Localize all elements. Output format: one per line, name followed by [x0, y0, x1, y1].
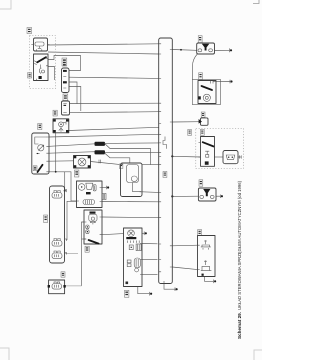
connector C2 body — [62, 101, 70, 115]
wire: stair branch into solenoid top-right and ECU (y=148-164) — [105, 143, 151, 164]
wire: gauge unit to ECU pin (y=45) — [48, 44, 159, 45]
warning lamp label — [75, 170, 79, 177]
connector C2 pin marks — [63, 104, 66, 113]
wire: valve 1 down to pump assembly — [193, 54, 198, 80]
CM motor circle — [128, 230, 135, 237]
module K lever — [38, 165, 43, 172]
pump assembly outer box — [192, 80, 220, 105]
actuator glyph 2 — [201, 260, 212, 270]
wire: control module right to earth — [142, 232, 144, 234]
warning lamp box — [74, 156, 91, 169]
wire: ignition switch to connector loop — [48, 56, 81, 71]
pressure switch lever — [203, 142, 214, 146]
solenoid S1 box — [121, 163, 143, 197]
SB corner pins — [48, 285, 50, 288]
switch unit SW box — [84, 210, 102, 244]
wire: warning lamp to solenoid left pin — [91, 162, 121, 165]
page corner bottom-left — [0, 348, 9, 360]
connector C1 body — [62, 68, 70, 93]
ECU inner label — [163, 172, 167, 178]
CB plug glyph 1 — [52, 193, 62, 199]
wire: switch unit to control module (y=234) — [102, 234, 124, 235]
wire: speed sensor to ECU (y=128) — [69, 127, 159, 130]
SU gauge circle — [78, 184, 85, 191]
ignition switch contact circle — [42, 70, 45, 73]
CM pin row — [128, 241, 140, 243]
SW inner glyph — [89, 214, 97, 221]
G_WIRES — [48, 44, 159, 286]
connector C1 pin marks — [63, 70, 67, 72]
wire: drop to connector block pin1 — [64, 172, 66, 191]
SU capsule glyph — [93, 185, 96, 191]
connector block CB label — [44, 215, 48, 223]
module K inner label — [33, 166, 37, 171]
ECU inner break zigzag — [163, 137, 167, 149]
SU cup glyph — [86, 183, 93, 189]
earth point e8 — [106, 186, 108, 190]
earth point e5 — [213, 280, 215, 284]
label P1 — [188, 129, 192, 135]
gauge unit box — [34, 38, 48, 51]
label L1 — [27, 28, 32, 34]
pressure connector glyph box — [223, 151, 238, 164]
wire: valve 1 to earth — [214, 49, 229, 51]
pin tick at dashed border — [240, 155, 242, 158]
pressure switch cup glyph — [205, 151, 209, 157]
pump black contact — [198, 96, 201, 99]
pressure connector inner glyph — [226, 155, 235, 160]
CM square glyph — [129, 245, 133, 250]
wire: connector C1 pin3 stair — [69, 82, 77, 104]
DC wedge arrow — [199, 119, 202, 124]
small connector box SB label — [61, 272, 65, 277]
ignition switch lever — [37, 57, 46, 62]
pressure switch pins — [199, 142, 201, 157]
module K pin ticks — [46, 137, 49, 172]
ECU right pin ticks — [170, 50, 172, 268]
wire: pressure switch to connector glyph — [215, 156, 224, 158]
label L2 — [28, 73, 32, 78]
ignition switch contact curve — [39, 68, 41, 74]
SW lever — [89, 240, 99, 244]
wire: control module to ECU (y=259) — [142, 259, 158, 261]
SU black bar — [86, 192, 91, 194]
page corner bottom-right — [254, 350, 262, 360]
wire: connector C2 pin1 to ECU (y=103) — [70, 102, 159, 104]
CB plug glyph 2 — [52, 241, 62, 247]
speed sensor box — [53, 119, 69, 133]
SW black bar top — [90, 212, 96, 214]
wire: sleeve2 fork into solenoid top-left — [105, 153, 130, 163]
connector C2 label — [63, 94, 68, 101]
module K transistor glyph — [38, 145, 44, 151]
CB plug glyph 3 — [52, 253, 62, 259]
wire: ECU to solenoid valve 2 (y=196) — [172, 195, 198, 197]
CM capsule — [134, 258, 140, 268]
wire: speed sensor branch down — [55, 133, 57, 172]
dashed enclosure pressure switch — [196, 129, 244, 169]
wire: pump to earth — [213, 81, 230, 83]
pump switch lever — [202, 86, 213, 90]
speed sensor label — [53, 110, 57, 116]
speed sensor circle — [59, 122, 64, 127]
actuator A1 box — [198, 236, 216, 277]
actuator dark dot — [202, 274, 204, 276]
ignition switch box — [34, 54, 49, 81]
gauge unit pins — [31, 45, 49, 51]
ignition switch pins — [37, 59, 49, 81]
wire: ECU earth at bottom — [164, 284, 175, 290]
connector C1 label — [62, 58, 67, 66]
wire: ECU to actuator pin1 (y=245) — [172, 244, 197, 247]
wire: module K pin1 to ECU (y=136) — [49, 134, 159, 137]
ECU left pin ticks — [159, 44, 164, 284]
actuator A1 label — [198, 230, 202, 236]
CM hatched square — [136, 244, 141, 251]
pump motor circle — [203, 94, 210, 101]
small connector box SB — [49, 280, 65, 294]
wire: module K pin4 to warning lamp (y=161) — [49, 160, 74, 162]
junction dot connector block pin1 — [64, 190, 66, 192]
wire: sensor unit output to ECU (y=201) — [102, 201, 159, 203]
wire: control module to ECU (y=274) — [142, 274, 158, 276]
dashed enclosure ignition assembly — [30, 36, 56, 89]
wire: connector glyph to dashed border pin — [238, 156, 242, 158]
harness sleeve 2 — [95, 150, 106, 154]
control module CM box — [124, 228, 143, 287]
wire: solenoid valve to ECU (y=192) — [142, 191, 159, 194]
junction dot on ECU edge — [171, 155, 173, 157]
wire: actuator earth — [205, 277, 214, 282]
SW label below — [85, 246, 89, 252]
CM bottom-left pin — [126, 282, 129, 285]
earth point e4 — [174, 287, 176, 291]
earth point e3 — [219, 195, 221, 199]
CM right pin ticks — [140, 244, 142, 275]
wire: switch lever stub — [82, 238, 87, 240]
page corner top-left — [0, 0, 11, 9]
diagnostic connector DC label — [201, 112, 205, 117]
SB plug glyph — [52, 284, 62, 290]
ignition switch centre line — [40, 65, 42, 69]
solenoid valve V2 box — [198, 188, 216, 201]
CM small circle — [135, 268, 139, 272]
earth point e6 — [143, 232, 145, 236]
ignition switch black contact — [39, 76, 42, 79]
wire: switch unit vertical link — [82, 222, 85, 286]
wire: ignition switch lower contact drop — [48, 67, 55, 81]
SU hatched pill — [83, 200, 95, 205]
module K inner wire — [35, 137, 47, 144]
CM small squares — [127, 260, 131, 263]
V1 funnel glyph — [202, 44, 210, 51]
CB pin marks right — [65, 190, 67, 255]
wire: ignition switch top contact to ECU (y=52) — [48, 52, 159, 54]
CM black bar — [126, 237, 136, 239]
pump assembly inner box — [198, 81, 216, 104]
solenoid S1 capsule — [127, 165, 139, 183]
wire: ECU to solenoid valve 1 (y=50) — [172, 49, 196, 52]
G_RIGHT_WIRES — [102, 48, 242, 295]
pump assembly label — [199, 73, 203, 80]
earth point e1 — [229, 48, 231, 52]
svg-text:UKŁAD STEROWANIA SPRZĘGŁEM AUT: UKŁAD STEROWANIA SPRZĘGŁEM AUTOMATYCZNYM… — [237, 181, 243, 310]
module K box — [32, 133, 49, 174]
wire: link to inhibitor connector — [66, 285, 82, 287]
diagnostic connector DC box — [201, 118, 209, 125]
wire: ECU to pressure switch (y=156) — [172, 155, 200, 158]
wire: control module bottom earth — [138, 287, 150, 294]
SU pin ticks — [77, 188, 103, 202]
solenoid valve V1 label — [198, 36, 202, 43]
SW pin ticks — [84, 217, 102, 239]
pressure switch black contact — [205, 161, 209, 164]
V1 contact ellipses — [198, 49, 202, 52]
sensor unit SU box — [77, 181, 103, 208]
page mark top-right — [253, 0, 259, 4]
wire: connector block pin3 stub — [65, 253, 79, 255]
speed sensor corner pins — [53, 119, 56, 121]
solenoid valve V1 box — [197, 43, 215, 54]
junction dot — [180, 49, 182, 51]
junction dot on ECU edge — [171, 195, 173, 197]
solenoid S1 inner wire — [133, 183, 141, 192]
wire: sensor unit to earth (y=187) — [102, 187, 107, 189]
V2 contact ellipses — [200, 195, 204, 198]
actuator glyph 1 — [201, 240, 211, 247]
wire: switch unit to ECU (y=217) — [102, 216, 159, 219]
solenoid S1 pin ticks — [121, 165, 143, 192]
wire: control module to ECU (y=244) — [142, 243, 158, 245]
pressure switch box — [201, 137, 215, 167]
wire: ECU to actuator pin2 (y=268) — [172, 267, 197, 270]
wire: connector C1 pin2 to ECU (y=77) — [69, 77, 159, 78]
harness sleeve 1 — [95, 142, 106, 146]
ECU control unit main box — [159, 38, 173, 284]
connector block CB body — [50, 186, 65, 263]
junction dot at x=55.7 — [55, 171, 57, 173]
SU side connector glyph — [102, 194, 106, 200]
gauge unit glyph — [35, 42, 44, 46]
solenoid valve V2 label — [199, 180, 203, 186]
SW fuse capsules — [86, 225, 89, 229]
label P2 — [200, 129, 204, 135]
module K label — [38, 124, 42, 130]
warning lamp symbol — [78, 158, 86, 166]
svg-text:Schemat 29.: Schemat 29. — [237, 311, 243, 339]
wire: connector C2 pin2 to ECU (y=112) — [70, 111, 159, 114]
ignition switch contact ticks — [34, 61, 37, 65]
wire: connector C1 pin4 stair — [69, 87, 81, 112]
warning lamp corner pins — [74, 156, 77, 158]
wire: connector block pin2 up to sensor feed — [67, 201, 77, 240]
connector tick on lamp wire — [99, 160, 101, 164]
V2 funnel glyph — [203, 189, 210, 196]
earth point e7 — [149, 292, 151, 296]
wire: module K pin2 to sleeve to ECU (y=143) — [49, 143, 159, 146]
wire: ECU to diagnostic connector (y=122) — [172, 121, 200, 123]
pump pin marks top-right — [211, 81, 214, 84]
solenoid S1 inner oval — [131, 176, 137, 182]
wire: valve 2 to earth — [216, 195, 220, 197]
solenoid S1 label — [119, 164, 123, 168]
wire: module K pin5 bottom feed (y=172) — [49, 172, 77, 201]
actuator pin ticks — [198, 245, 200, 269]
CM label below — [125, 290, 129, 297]
earth point e2 — [229, 80, 231, 84]
wire: module K pin3 to sleeve to ECU (y=152) — [49, 152, 159, 154]
